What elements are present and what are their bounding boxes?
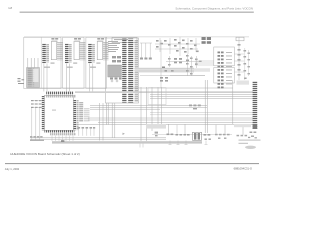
section label box bottom center <box>146 124 166 128</box>
ground stubs audio row <box>169 141 208 145</box>
top net stubs over memory <box>24 36 249 38</box>
svg-text:6881094C31-O: 6881094C31-O <box>234 166 252 170</box>
flash memory U301 <box>42 38 62 68</box>
small flag label mid sheet <box>123 133 125 135</box>
U306 top pin bar <box>46 92 73 95</box>
U305 core box <box>108 65 122 77</box>
U306 bottom pin numbers <box>50 133 76 135</box>
bus bar C <box>135 40 138 102</box>
wide light bus band <box>52 141 202 143</box>
shaded block U100 <box>27 68 40 88</box>
memory section border <box>24 37 107 88</box>
left support components column <box>31 100 42 108</box>
stub box wires <box>79 129 94 136</box>
test point box right of connector <box>237 81 250 85</box>
inspection stamp <box>245 146 256 149</box>
dual gate pair U307 <box>202 37 212 44</box>
SRAM U303 <box>88 38 108 68</box>
wire in unit box 1 <box>40 37 42 88</box>
connector J301 body <box>214 47 235 66</box>
long vertical wire x161 <box>160 40 162 88</box>
cap chain wire <box>238 37 240 80</box>
discrete parts right of connector <box>244 50 250 79</box>
wires into U100 <box>28 58 38 68</box>
svg-text:July 1, 2002: July 1, 2002 <box>5 167 20 171</box>
vertical wire drops center <box>100 80 243 141</box>
J301 net stubs <box>226 52 232 84</box>
mic bias cluster <box>237 135 251 138</box>
wires right of connector <box>234 48 248 80</box>
solder blob mark <box>61 140 64 142</box>
note text rows bottom right <box>239 140 261 144</box>
U306 right net labels <box>79 102 83 122</box>
U306 label <box>52 110 56 111</box>
connector J303 body <box>214 68 235 84</box>
board connector J302 bar <box>253 81 258 129</box>
flash memory U302 <box>65 38 85 68</box>
oscillator cluster Y300 <box>156 40 171 48</box>
U305 label box <box>112 37 137 42</box>
transistor network Q300 <box>174 39 199 53</box>
ASIC block U305 border <box>106 38 139 103</box>
U305 decoupling cluster <box>112 56 121 62</box>
audio PA row <box>167 134 190 136</box>
section label box bottom right <box>234 124 251 127</box>
U305 label text <box>114 39 128 40</box>
long bus pair mid sheet <box>27 88 254 139</box>
wires for Q300 network <box>155 37 200 56</box>
svg-text:HUE4040E VOCON Board Schematic: HUE4040E VOCON Board Schematic (Sheet 1 … <box>10 152 80 156</box>
svg-text:1-8: 1-8 <box>8 6 12 10</box>
data bus bar B <box>128 39 133 103</box>
PA output filter <box>204 134 211 140</box>
U305 pin name rows <box>108 41 120 52</box>
shift register block mid bottom <box>148 88 166 105</box>
footer rule <box>5 162 259 165</box>
small component S400 <box>155 132 158 137</box>
audio signal wire <box>152 133 232 135</box>
ground cap row bottom left <box>30 136 44 141</box>
resistor cluster left of U100 <box>18 78 25 84</box>
processor U306 body <box>44 95 73 130</box>
drop wire to audio row <box>176 125 178 134</box>
wires for discrete cluster <box>140 43 152 58</box>
filter chain mid right <box>168 55 202 75</box>
J301 pin boxes <box>218 52 224 89</box>
discrete cluster row right of ASIC <box>140 58 152 60</box>
header rule <box>20 11 254 14</box>
U306 right pin numbers <box>76 100 78 130</box>
wires filter chain <box>166 54 205 76</box>
pilot component F400 <box>189 105 201 110</box>
parts below J302 <box>250 132 257 139</box>
QFP bottom pin wires <box>52 136 73 142</box>
U306 bottom pin bar <box>44 130 74 132</box>
svg-text:Schematics, Component Diagrams: Schematics, Component Diagrams, and Part… <box>175 7 253 11</box>
U306 right net names <box>84 108 90 122</box>
cap chain right column <box>236 37 244 75</box>
parts on band <box>162 67 165 69</box>
address bus bar A <box>122 39 126 103</box>
regulator cluster mid right <box>174 58 189 63</box>
memory bus wires to processor <box>44 64 93 92</box>
transistor pair cluster in U305 <box>110 78 122 83</box>
bus band right of processor <box>75 91 253 93</box>
U306 right pin bar <box>74 100 76 130</box>
short bus into connector <box>195 61 214 65</box>
U306 left pin bar <box>42 96 45 130</box>
left bypass wires <box>32 101 42 140</box>
audio PA U401 <box>193 132 202 140</box>
U306 top pin numbers <box>46 95 75 98</box>
J302 bottom corner <box>253 124 258 129</box>
QFP bottom stub boxes <box>78 127 96 129</box>
light bus band mid right <box>135 68 194 73</box>
audio IC U400 cluster <box>160 77 168 82</box>
speaker net cluster <box>215 134 230 139</box>
pin ticks below bus band <box>140 144 143 148</box>
